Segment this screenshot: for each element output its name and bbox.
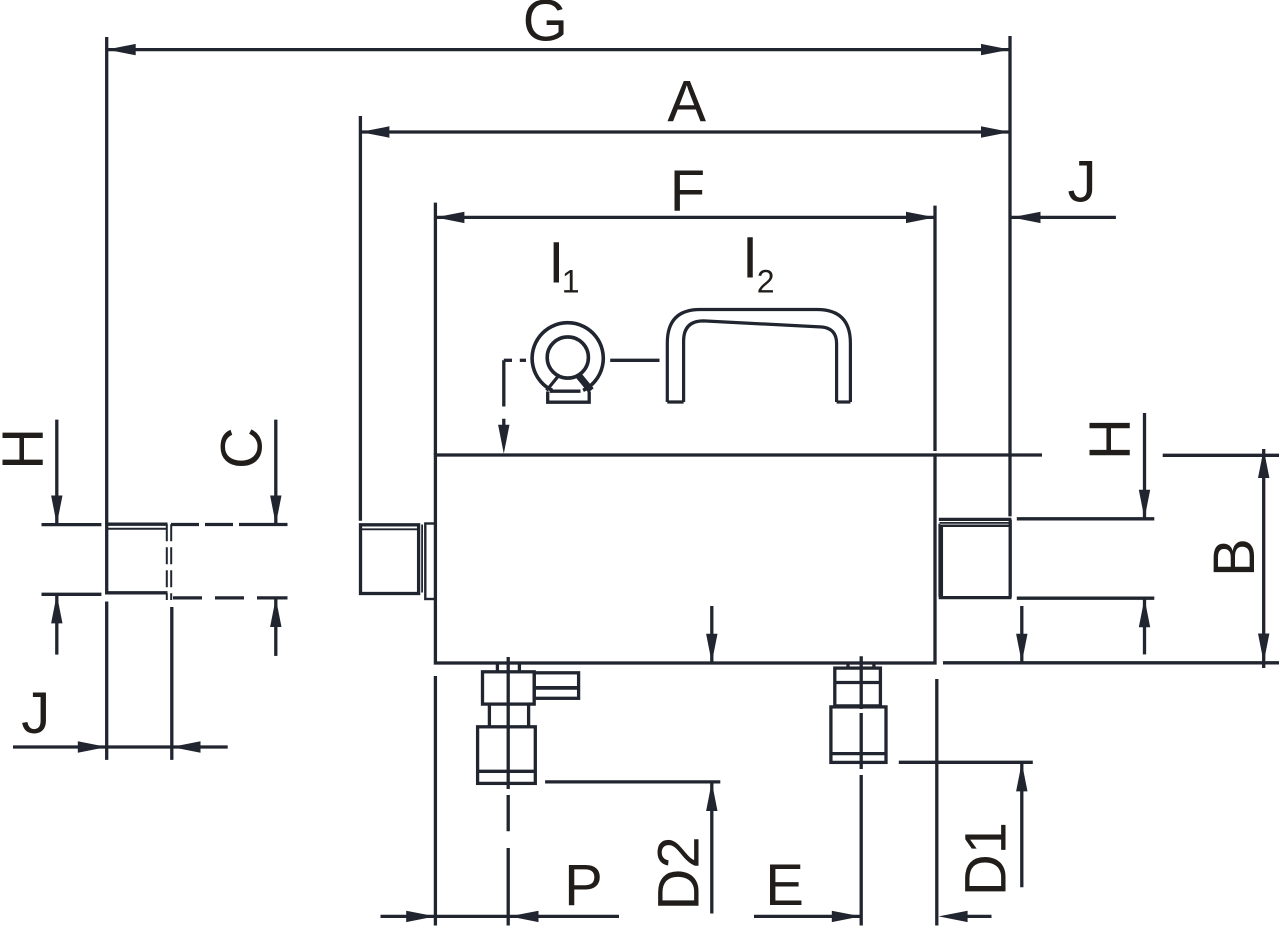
- svg-text:P: P: [564, 853, 603, 918]
- svg-text:2: 2: [757, 263, 775, 299]
- right fitting stem: [848, 663, 874, 668]
- dimension chain last arrow: [939, 911, 968, 922]
- dimension F extension line right: [933, 206, 936, 451]
- left detail block hidden edge 2: [170, 524, 172, 600]
- dimension F line: [435, 216, 935, 219]
- svg-text:1: 1: [562, 264, 580, 300]
- handle right leg cap: [837, 400, 851, 403]
- hidden line bottom tick: [264, 596, 288, 599]
- dimension B arrow bottom: [1258, 634, 1269, 663]
- svg-text:F: F: [670, 159, 705, 224]
- left detail block lip: [108, 528, 166, 530]
- dimension H left line upper: [55, 420, 58, 525]
- dimension C line lower: [274, 598, 277, 656]
- svg-text:H: H: [0, 428, 56, 470]
- dimension J top arrow: [1012, 212, 1041, 223]
- centerline eye to leader: [504, 359, 512, 362]
- dimension P arrow right-pointing: [406, 911, 435, 922]
- dimension H right line upper: [1143, 413, 1146, 519]
- dimension J left arrow 1: [78, 741, 107, 752]
- dimension H right tick top: [1017, 517, 1155, 520]
- right fitting upper block: [835, 668, 881, 706]
- right port lip thin: [940, 522, 1010, 524]
- eye bolt inner ring: [547, 337, 588, 378]
- dimension F arrow left: [435, 212, 464, 223]
- dimension G/A right extension line: [1008, 36, 1011, 516]
- dimension H left arrow top: [51, 496, 62, 525]
- eye bolt base inner line: [550, 390, 581, 393]
- svg-text:G: G: [523, 0, 568, 54]
- dimension P line: [381, 915, 620, 918]
- dimension J left arrow 2: [172, 741, 201, 752]
- hidden line top dashed: [171, 523, 264, 526]
- dimension B arrow top: [1258, 449, 1269, 478]
- dimension H right arrow bottom: [1139, 598, 1150, 627]
- dimension P arrow left-pointing: [510, 911, 539, 922]
- svg-text:D1: D1: [954, 822, 1019, 896]
- dimension G extension line left: [105, 37, 108, 524]
- dimension D1 tick: [899, 761, 1033, 764]
- dimension F arrow right: [906, 212, 935, 223]
- dimension J left line: [13, 745, 228, 748]
- dimension D2 line lower: [710, 782, 713, 914]
- eye bolt collar right wedge: [578, 375, 591, 391]
- dimension A extension line left: [359, 116, 362, 521]
- dimension D1 line lower: [1020, 762, 1023, 887]
- left fitting lower block line: [478, 770, 536, 773]
- dimension F extension line left: [434, 203, 437, 455]
- dimension G arrow left: [107, 44, 136, 55]
- handle inner outline: [684, 321, 837, 402]
- dimension J left extension line 1: [105, 602, 108, 760]
- dimension H left tick top: [42, 523, 102, 526]
- dimension C line upper: [274, 420, 277, 525]
- left port inner vertical: [421, 525, 423, 593]
- bottom extension line left: [434, 676, 437, 926]
- body top edge tick right: [935, 453, 1042, 456]
- centerline dash: [520, 359, 526, 362]
- dimension D1 arrow top: [1016, 634, 1027, 663]
- dimension D2 line upper: [710, 606, 713, 663]
- dimension E line: [754, 915, 861, 918]
- dimension D2 tick: [545, 780, 720, 783]
- dimension A arrow left: [360, 126, 389, 137]
- left port flange strip: [425, 524, 435, 600]
- right fitting upper block line: [835, 681, 881, 684]
- right port top bar: [939, 518, 1012, 521]
- left port square: [361, 525, 419, 594]
- eye bolt outer ring: [532, 323, 603, 391]
- handle outer outline: [667, 310, 850, 403]
- left fitting side arm: [534, 673, 578, 699]
- dimension D1 line upper: [1020, 606, 1023, 663]
- dimension B tick top: [1163, 454, 1279, 457]
- dimension H left line lower: [55, 595, 58, 655]
- svg-text:E: E: [765, 853, 804, 918]
- svg-text:C: C: [210, 427, 275, 469]
- left fitting stem: [497, 663, 519, 672]
- eye bolt base cup: [548, 392, 590, 403]
- dimension A line: [360, 130, 1010, 133]
- right fitting centerline: [860, 656, 863, 925]
- dimension G arrow right: [981, 44, 1010, 55]
- dimension B line: [1262, 449, 1265, 668]
- dimension G line: [107, 48, 1010, 51]
- dimension D2 arrow bottom: [706, 782, 717, 811]
- bottom extension line right: [935, 679, 938, 926]
- leader line vertical dashed: [502, 360, 505, 440]
- right port lip: [939, 525, 1010, 528]
- svg-text:A: A: [667, 69, 706, 134]
- svg-text:H: H: [1078, 418, 1143, 460]
- dimension J left extension line 2: [170, 607, 173, 760]
- dimension C arrow top: [270, 496, 281, 525]
- hidden line bottom dashed: [173, 596, 264, 599]
- dimension H right tick bottom: [1017, 597, 1155, 600]
- dimension D1 arrow bottom: [1016, 762, 1027, 791]
- svg-text:B: B: [1202, 538, 1267, 577]
- left detail block hidden edge 1: [166, 524, 168, 600]
- leader arrow: [498, 425, 509, 454]
- dimension E arrow: [832, 911, 861, 922]
- svg-text:J: J: [21, 681, 50, 746]
- right port inner vertical: [938, 524, 940, 597]
- svg-text:J: J: [1068, 150, 1097, 215]
- left fitting arm line: [534, 686, 578, 690]
- dimension B bottom extension: [943, 661, 1279, 664]
- left fitting lower block: [478, 727, 536, 784]
- dimension chain last tail: [967, 915, 992, 918]
- dimension H left arrow bottom: [51, 594, 62, 623]
- dimension H left tick bottom: [42, 593, 102, 596]
- left detail block: [107, 524, 168, 593]
- svg-text:D2: D2: [647, 836, 712, 910]
- dimension A arrow right: [981, 126, 1010, 137]
- hidden line top tick: [264, 523, 288, 526]
- dimension J top line: [1012, 216, 1116, 219]
- right fitting lower block: [831, 707, 886, 763]
- left fitting neck: [489, 704, 528, 727]
- eye bolt collar left: [547, 376, 559, 390]
- body: [435, 455, 935, 663]
- right fitting lower block line: [831, 752, 886, 755]
- handle left leg cap: [667, 400, 683, 403]
- centerline eye to handle: [610, 359, 659, 362]
- dimension D2 arrow top: [706, 634, 717, 663]
- dimension H right line lower: [1143, 598, 1146, 654]
- left fitting centerline: [507, 657, 510, 926]
- dimension C arrow bottom: [270, 598, 281, 627]
- left port square lip: [362, 528, 418, 530]
- dimension H right arrow top: [1139, 490, 1150, 519]
- right port square: [939, 520, 1012, 598]
- left fitting upper block: [483, 672, 535, 704]
